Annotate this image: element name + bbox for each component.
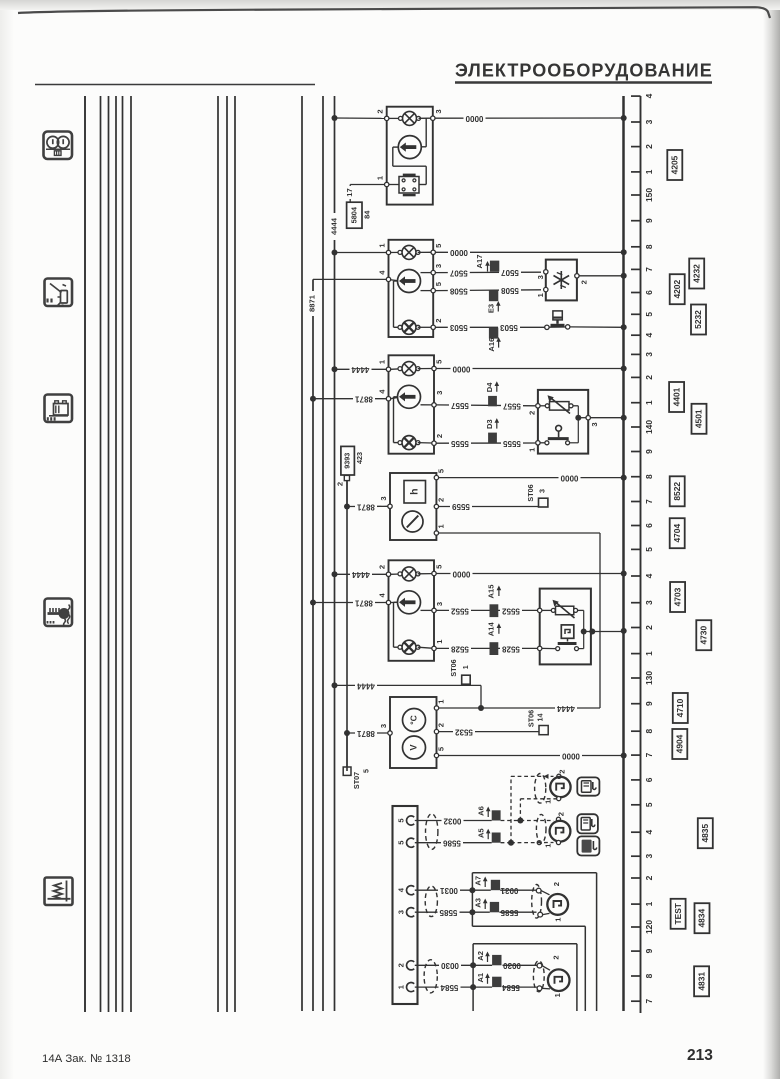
svg-text:4: 4 — [644, 573, 654, 578]
unit label 4704 — [670, 518, 685, 548]
svg-text:6: 6 — [644, 523, 654, 528]
svg-text:1: 1 — [376, 175, 385, 180]
lock actuator 4631 — [537, 955, 569, 997]
wire 4232 to bus — [579, 275, 623, 277]
unit label 4831 — [694, 966, 709, 996]
connector A5 — [477, 828, 501, 843]
svg-text:7: 7 — [644, 499, 654, 504]
svg-text:5584: 5584 — [440, 983, 458, 992]
svg-text:1: 1 — [377, 243, 386, 248]
connector E3 — [487, 290, 501, 313]
svg-text:3: 3 — [435, 391, 444, 395]
pin 3 unit6 — [379, 724, 392, 735]
pin 1 unit4 — [434, 524, 445, 536]
svg-text:0030: 0030 — [441, 961, 459, 970]
svg-text:8871: 8871 — [357, 729, 375, 738]
ruler ticks and numbers — [631, 93, 654, 1003]
svg-text:5552: 5552 — [451, 606, 469, 615]
pin 2 unit3 — [432, 434, 444, 446]
svg-text:2: 2 — [335, 482, 344, 486]
connector A6 — [477, 806, 501, 820]
svg-text:4834: 4834 — [697, 909, 707, 928]
svg-text:D4: D4 — [485, 382, 494, 392]
switch 4730 — [542, 644, 579, 651]
svg-text:5: 5 — [435, 359, 444, 364]
unit label TEST — [671, 899, 686, 929]
connector A15 — [487, 584, 502, 617]
svg-text:9: 9 — [644, 449, 654, 454]
wire 5532 — [439, 727, 539, 736]
svg-text:5557: 5557 — [451, 401, 469, 410]
svg-text:ST06: ST06 — [449, 659, 458, 676]
lamp bottom unit3 — [398, 436, 432, 450]
svg-text:4831: 4831 — [696, 972, 706, 991]
svg-text:2: 2 — [644, 375, 654, 380]
pin 2 4232 — [575, 274, 589, 285]
svg-text:4: 4 — [377, 270, 386, 275]
svg-text:5503: 5503 — [449, 323, 467, 332]
lock actuator A 4835 — [543, 770, 570, 804]
connector A2 — [476, 951, 502, 965]
svg-text:3: 3 — [644, 600, 654, 605]
svg-text:5: 5 — [644, 312, 654, 317]
servo motor 4730 — [561, 625, 574, 642]
svg-text:4444: 4444 — [357, 681, 375, 690]
unit label 8522 — [670, 476, 685, 506]
svg-text:4444: 4444 — [351, 365, 369, 374]
svg-text:4: 4 — [377, 593, 386, 598]
svg-text:1: 1 — [397, 984, 406, 989]
svg-text:7: 7 — [644, 999, 654, 1004]
unit label 4501 — [692, 404, 707, 434]
svg-text:2: 2 — [644, 625, 654, 630]
unit label 4703 — [670, 582, 685, 612]
svg-text:TEST: TEST — [673, 902, 683, 924]
svg-text:3: 3 — [590, 422, 599, 426]
connector oval 4631 left — [424, 960, 437, 993]
svg-text:1: 1 — [435, 639, 444, 644]
svg-text:5: 5 — [644, 547, 654, 552]
wire 5559 — [439, 502, 539, 511]
svg-text:6: 6 — [644, 777, 654, 782]
svg-text:7: 7 — [644, 752, 654, 757]
harness lines middle group — [218, 96, 235, 1012]
svg-text:3: 3 — [379, 724, 388, 728]
svg-text:120: 120 — [644, 920, 654, 934]
svg-text:17: 17 — [345, 188, 354, 196]
unit 4202 box — [389, 240, 434, 337]
pin 5 unit2 — [431, 243, 443, 255]
pin 5b unit2 — [431, 281, 443, 292]
svg-text:5: 5 — [435, 564, 444, 569]
lamp top unit2 — [391, 245, 431, 259]
wire 4444 to 4730 column — [481, 704, 600, 713]
pictogram tile 3 — [577, 836, 599, 855]
wire 0000 unit6 — [439, 751, 624, 760]
svg-text:4232: 4232 — [691, 264, 701, 283]
wire 0031 — [415, 886, 537, 895]
unit label 4834 — [695, 903, 710, 933]
svg-text:°C: °C — [408, 715, 418, 725]
module 4834 frame — [472, 873, 596, 1011]
component 9393 423 — [335, 446, 364, 506]
voltmeter symbol — [403, 736, 426, 759]
pin 4 housing — [397, 886, 415, 895]
connector oval 4834 left — [425, 886, 437, 917]
wire 0030 — [415, 961, 537, 970]
clock symbol — [402, 511, 423, 532]
svg-text:4: 4 — [644, 830, 654, 835]
svg-text:5552: 5552 — [502, 606, 520, 615]
unit 8522 box — [390, 473, 436, 540]
svg-text:2: 2 — [579, 280, 588, 284]
svg-text:0000: 0000 — [465, 114, 483, 123]
svg-text:8: 8 — [644, 474, 654, 479]
pin 5528 4730 — [538, 646, 542, 650]
svg-text:5: 5 — [397, 840, 406, 845]
splice ST06 3 — [526, 484, 548, 507]
pin 2 unit1 — [376, 109, 389, 120]
wire 0000 top — [435, 114, 624, 123]
svg-text:140: 140 — [644, 420, 654, 434]
svg-text:5559: 5559 — [452, 502, 470, 511]
splice ST06 1 — [449, 659, 470, 684]
pin 3 housing — [397, 908, 415, 917]
svg-text:4501: 4501 — [694, 409, 704, 428]
pin 1 unit2 — [377, 243, 390, 255]
pictogram tile 1 — [577, 777, 599, 795]
pictogram tile 2 — [577, 814, 598, 833]
pin 1 unit1 — [376, 175, 389, 187]
gauge unit2 — [398, 270, 432, 293]
connector A1 — [476, 972, 502, 987]
unit label 4205 — [667, 150, 682, 180]
lamp bottom unit5 — [398, 640, 432, 654]
svg-text:D3: D3 — [485, 419, 494, 429]
potentiometer 4501 — [540, 395, 573, 413]
flasher relay unit1 — [387, 175, 419, 195]
pin 3 4501 — [586, 416, 599, 427]
svg-text:4704: 4704 — [672, 524, 682, 543]
svg-text:8: 8 — [644, 973, 654, 978]
svg-text:4444: 4444 — [352, 570, 370, 579]
coordinate ruler axis — [640, 96, 642, 1013]
4501 internal node — [573, 406, 586, 443]
svg-text:1: 1 — [554, 917, 563, 922]
pin 2 unit6 — [434, 723, 445, 734]
pin 4 unit5 — [377, 593, 397, 605]
unit label 4904 — [672, 729, 687, 759]
svg-text:1: 1 — [461, 665, 470, 669]
svg-text:3: 3 — [644, 119, 654, 124]
pin 5552 4730 — [538, 608, 542, 612]
pin 2 housing — [397, 961, 415, 970]
svg-text:2: 2 — [558, 770, 567, 774]
unit2 internal wiring — [394, 281, 401, 327]
connector oval actuator A — [535, 774, 546, 804]
pin 1 unit5 — [432, 639, 444, 651]
svg-text:A17: A17 — [475, 255, 484, 269]
icon glow plug — [45, 599, 73, 627]
lamp bottom unit2 — [398, 320, 431, 334]
pin 5a housing — [397, 816, 415, 825]
pin 3 unit3 — [432, 391, 444, 407]
wire 4444 hour meter feed — [439, 533, 600, 708]
svg-text:A5: A5 — [477, 828, 486, 838]
svg-text:3: 3 — [644, 352, 654, 357]
svg-text:8: 8 — [644, 244, 654, 249]
lock actuator 4834 — [536, 882, 568, 922]
svg-text:2: 2 — [436, 723, 445, 727]
svg-text:5507: 5507 — [449, 268, 467, 277]
AC symbol 4232 — [554, 271, 570, 289]
svg-text:4703: 4703 — [672, 587, 682, 606]
svg-text:0000: 0000 — [450, 248, 468, 257]
svg-text:4730: 4730 — [699, 626, 709, 645]
wire 5503 — [435, 323, 544, 332]
svg-text:2: 2 — [644, 875, 654, 880]
wire bus to unit2 pin1 — [332, 250, 387, 256]
svg-text:14: 14 — [536, 714, 545, 722]
svg-text:4835: 4835 — [700, 824, 710, 843]
svg-text:0000: 0000 — [452, 569, 470, 578]
svg-text:5508: 5508 — [501, 286, 519, 295]
wire 5585 — [415, 908, 537, 917]
svg-text:1: 1 — [543, 799, 552, 804]
wire 8871 unit5 — [310, 598, 386, 607]
wire 4444 to unit5 pin2 — [332, 570, 387, 579]
wire 8871 unit6 — [344, 729, 388, 738]
svg-text:0000: 0000 — [452, 364, 470, 373]
svg-text:8871: 8871 — [355, 598, 373, 607]
wire 5507 — [435, 268, 541, 277]
svg-text:4401: 4401 — [671, 387, 681, 406]
svg-text:5507: 5507 — [501, 268, 519, 277]
svg-text:2: 2 — [552, 882, 561, 886]
svg-text:8871: 8871 — [355, 395, 373, 404]
connector oval actuator B — [536, 814, 546, 843]
svg-text:5: 5 — [434, 243, 443, 248]
svg-text:5557: 5557 — [503, 401, 521, 410]
svg-text:1: 1 — [436, 699, 445, 704]
pin 5 unit4 — [434, 468, 445, 480]
svg-text:ST07: ST07 — [352, 772, 361, 789]
pin 3 unit5 — [432, 602, 444, 613]
wire 0000 unit4 — [439, 473, 624, 482]
pin 1 unit3 — [377, 359, 390, 371]
svg-text:5804: 5804 — [349, 206, 358, 223]
pin 1 4501 — [527, 441, 540, 452]
svg-text:A2: A2 — [476, 951, 485, 961]
svg-text:3: 3 — [536, 275, 545, 279]
svg-text:1: 1 — [644, 651, 654, 656]
switch 4501 — [540, 425, 578, 444]
svg-text:1: 1 — [553, 992, 562, 997]
wire 0000 unit2 — [435, 248, 623, 257]
svg-text:2: 2 — [557, 812, 566, 816]
connector A16 — [487, 328, 501, 352]
unit 4401 box — [389, 355, 435, 453]
harness line 323 — [322, 96, 324, 1011]
thermometer symbol — [403, 709, 426, 732]
connector D3 — [485, 418, 499, 443]
svg-text:2: 2 — [376, 109, 385, 113]
bus 8871 line — [313, 279, 389, 1011]
svg-text:3: 3 — [397, 910, 406, 914]
wire 4444 bus to unit6 — [332, 681, 485, 711]
svg-text:150: 150 — [644, 188, 654, 202]
pin 2 4501 — [527, 404, 540, 415]
icon heater element — [45, 878, 73, 906]
svg-text:4904: 4904 — [675, 734, 685, 753]
svg-text:3: 3 — [644, 854, 654, 859]
unit5 internal wiring — [394, 602, 401, 647]
label 17 — [345, 186, 354, 199]
svg-text:1: 1 — [377, 359, 386, 364]
harness lines left group — [85, 96, 131, 1012]
svg-text:A1: A1 — [476, 972, 485, 982]
svg-text:5232: 5232 — [693, 310, 703, 329]
svg-text:3: 3 — [434, 264, 443, 268]
connector A14 — [487, 622, 502, 655]
svg-text:4205: 4205 — [670, 155, 680, 174]
connector oval 4834 right — [532, 885, 542, 919]
svg-text:2: 2 — [434, 319, 443, 323]
dashed wire 5586 branch — [501, 774, 554, 846]
svg-text:8871: 8871 — [357, 502, 375, 511]
svg-text:9: 9 — [644, 948, 654, 953]
svg-text:2: 2 — [435, 434, 444, 438]
pin 5 unit3 — [432, 359, 444, 371]
unit 4904 box — [390, 697, 437, 768]
lamp top unit5 — [391, 567, 432, 581]
svg-text:ЭЛЕКТРООБОРУДОВАНИЕ: ЭЛЕКТРООБОРУДОВАНИЕ — [455, 61, 713, 81]
splice ST07 5 — [343, 733, 370, 789]
lamp top unit3 — [391, 362, 432, 376]
svg-text:A16: A16 — [487, 338, 496, 352]
connector A17 — [475, 255, 499, 272]
svg-text:7: 7 — [644, 267, 654, 272]
splice ST06 14 — [527, 710, 548, 735]
svg-text:5532: 5532 — [455, 727, 473, 736]
wire bus to unit1 pin2 — [332, 115, 385, 121]
bus 9393-8871 line — [346, 480, 348, 771]
pin 2 unit2 — [431, 319, 443, 330]
connector A7 — [474, 876, 500, 890]
svg-text:84: 84 — [362, 210, 371, 219]
svg-text:4: 4 — [377, 389, 386, 394]
svg-text:5585: 5585 — [439, 908, 457, 917]
wire pin1 to 5804 — [350, 185, 384, 203]
pin 2 unit4 — [434, 498, 445, 509]
svg-text:A15: A15 — [487, 584, 496, 599]
title underline — [455, 81, 712, 83]
svg-text:2: 2 — [551, 955, 560, 959]
svg-text:A14: A14 — [487, 622, 496, 637]
wire 0000 unit5 — [436, 569, 623, 578]
svg-text:3: 3 — [538, 489, 547, 493]
svg-text:5503: 5503 — [500, 323, 518, 332]
svg-text:5508: 5508 — [449, 286, 467, 295]
svg-text:A3: A3 — [474, 898, 483, 908]
svg-text:1: 1 — [527, 447, 536, 452]
connector D4 — [485, 381, 499, 406]
unit 4501 box — [538, 390, 588, 454]
svg-text:8871: 8871 — [308, 294, 317, 312]
svg-text:2: 2 — [436, 498, 445, 502]
svg-text:0000: 0000 — [562, 751, 580, 760]
svg-text:8522: 8522 — [672, 482, 682, 501]
svg-text:1: 1 — [436, 524, 445, 529]
pin 3 unit2 — [431, 264, 443, 275]
connector A3 — [474, 898, 499, 912]
svg-text:5586: 5586 — [443, 839, 461, 848]
connector 5804 84 — [347, 202, 372, 228]
svg-text:5555: 5555 — [451, 439, 469, 448]
wire 0032 — [415, 816, 492, 825]
connector housing box — [393, 806, 418, 1004]
wire 5586 — [415, 839, 492, 848]
dashed wire 0032 branch — [501, 799, 557, 824]
unit 4205 box — [387, 107, 433, 205]
svg-text:5555: 5555 — [503, 439, 521, 448]
svg-text:2: 2 — [397, 963, 406, 967]
svg-text:14А Зак. № 1318: 14А Зак. № 1318 — [42, 1053, 131, 1065]
svg-text:8: 8 — [644, 729, 654, 734]
unit label 4835 — [698, 818, 713, 848]
svg-text:5528: 5528 — [451, 644, 469, 653]
svg-text:V: V — [408, 744, 418, 750]
wire 0000 unit3 — [436, 364, 623, 373]
unit label 4232 — [689, 259, 704, 289]
svg-text:1: 1 — [644, 169, 654, 174]
unit 4703 box — [389, 560, 435, 661]
potentiometer 4730 — [542, 600, 578, 618]
lamp unit1 — [389, 111, 431, 125]
svg-text:ST06: ST06 — [527, 710, 536, 727]
svg-text:5: 5 — [436, 468, 445, 473]
unit label 4730 — [696, 620, 711, 650]
connector oval 4631 right — [533, 961, 544, 992]
wire 5557 — [436, 401, 535, 411]
svg-text:130: 130 — [644, 671, 654, 685]
svg-text:5: 5 — [434, 281, 443, 286]
pin 4 unit2 — [377, 270, 397, 282]
svg-text:1: 1 — [644, 901, 654, 906]
wire 5232 to bus — [570, 326, 624, 328]
unit label 4202 — [670, 274, 685, 304]
svg-text:1: 1 — [644, 400, 654, 405]
wire 8871 unit4 — [344, 502, 388, 511]
svg-text:2: 2 — [377, 565, 386, 569]
svg-text:5: 5 — [644, 802, 654, 807]
svg-text:1: 1 — [543, 843, 552, 848]
svg-text:6: 6 — [644, 290, 654, 295]
lock actuator B 4835 — [543, 812, 570, 848]
bus 4444 line — [334, 96, 336, 1011]
svg-text:A6: A6 — [477, 806, 486, 816]
svg-text:3: 3 — [379, 496, 388, 500]
gauge unit5 — [398, 591, 432, 614]
pin 1 unit6 — [434, 699, 445, 710]
pin 2 unit5 — [377, 565, 390, 577]
wire 5552 — [436, 606, 537, 615]
svg-text:4444: 4444 — [330, 217, 339, 235]
main right bus — [621, 96, 627, 1011]
unit label 4710 — [673, 693, 688, 723]
svg-text:423: 423 — [355, 452, 364, 464]
hour counter symbol — [404, 481, 426, 504]
